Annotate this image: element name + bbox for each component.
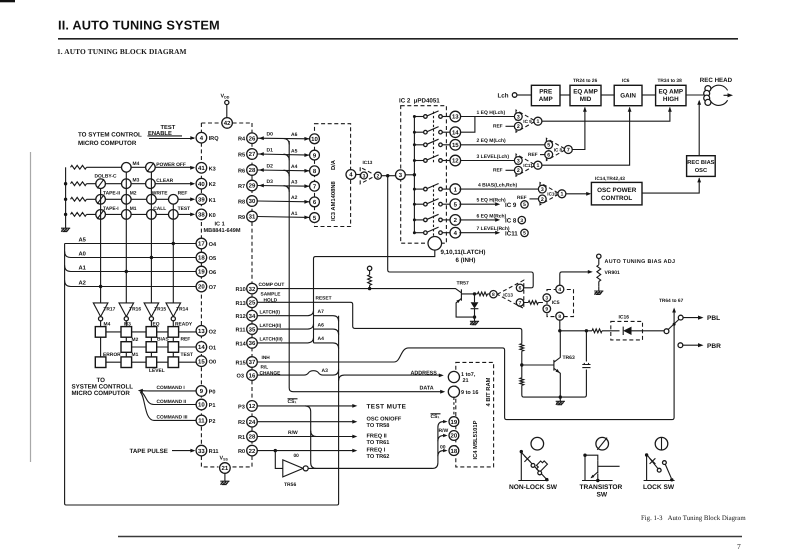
svg-text:AMP: AMP [539, 96, 553, 103]
resistor TR57 collector to comparator [478, 292, 488, 296]
svg-text:1: 1 [536, 119, 539, 125]
svg-text:1: 1 [560, 192, 563, 198]
pin 11 [196, 415, 207, 426]
svg-text:PRE: PRE [539, 88, 552, 95]
wire REF to IC11 [506, 169, 515, 171]
switch contact circle [147, 210, 157, 220]
svg-text:29: 29 [249, 183, 256, 190]
wire buffer out to IC2 pin 3 [382, 175, 396, 177]
junction [585, 329, 588, 332]
pin 3 [543, 294, 551, 302]
svg-text:DOLBY-C: DOLBY-C [95, 174, 117, 180]
svg-text:LOCK SW: LOCK SW [643, 484, 675, 491]
svg-text:40: 40 [198, 181, 205, 188]
pin 9 [196, 386, 207, 397]
wire CS1 row to test mute [257, 404, 357, 408]
wire latch row A7 [257, 311, 338, 322]
svg-text:REF: REF [528, 152, 538, 158]
svg-text:IC 2 µPD4051: IC 2 µPD4051 [399, 97, 440, 104]
svg-text:IRQ: IRQ [209, 136, 220, 142]
resistor reset chain upper [520, 344, 524, 352]
junction [413, 203, 416, 206]
svg-text:TEST: TEST [181, 352, 194, 358]
svg-text:TR64 to 67: TR64 to 67 [659, 298, 684, 304]
wire IC10 out to OSC POWER CONTROL [566, 192, 591, 196]
ground VR901 [594, 287, 603, 295]
svg-text:TEST MUTE: TEST MUTE [367, 404, 407, 411]
matrix cell [95, 327, 106, 338]
svg-text:3: 3 [545, 295, 548, 301]
svg-text:TR17: TR17 [103, 306, 115, 312]
pin 8 [556, 312, 564, 320]
svg-text:REF: REF [493, 168, 503, 174]
wire K3 row [87, 166, 194, 168]
svg-text:TR63: TR63 [563, 355, 575, 361]
junction [670, 478, 673, 481]
analog switch row pin 5 [414, 199, 450, 206]
data bus vertical to RAM [289, 141, 445, 394]
svg-text:M2: M2 [130, 191, 137, 197]
junction [99, 285, 102, 288]
page corner mark [0, 0, 15, 2]
junction [274, 449, 277, 452]
svg-text:17: 17 [198, 241, 205, 248]
svg-text:D3: D3 [267, 179, 274, 185]
svg-text:11: 11 [198, 418, 205, 425]
wire pin4 to buffer [356, 174, 360, 176]
pin 14 [450, 127, 461, 138]
node PBR [678, 343, 704, 348]
wire latch circle to latch bus [314, 250, 435, 343]
pin 3 [514, 157, 522, 165]
svg-text:A4: A4 [318, 336, 325, 342]
svg-text:IC 8: IC 8 [505, 218, 517, 225]
svg-text:FREQ I: FREQ I [367, 448, 386, 454]
wire A5 row [65, 243, 197, 245]
svg-text:K2: K2 [209, 182, 216, 188]
svg-text:18: 18 [451, 448, 458, 455]
pin 32 [247, 283, 258, 294]
svg-text:3: 3 [517, 114, 520, 120]
ground TR57 [470, 317, 479, 325]
pin 2 [514, 122, 522, 130]
svg-text:CONTROL: CONTROL [601, 195, 632, 202]
analog switch row pin 13 [414, 111, 450, 118]
pin 2 [450, 215, 461, 226]
svg-text:21: 21 [222, 465, 229, 472]
svg-text:TO TR61: TO TR61 [367, 440, 390, 446]
block OSC POWER CONTROL [591, 182, 642, 205]
junction [172, 242, 175, 245]
junction [64, 198, 67, 201]
wire K1 row [87, 198, 194, 200]
svg-text:A1: A1 [79, 266, 87, 272]
ground TR63 [556, 397, 565, 405]
svg-text:TO SYTEM CONTROL: TO SYTEM CONTROL [78, 132, 142, 139]
svg-text:15: 15 [452, 142, 459, 149]
svg-text:A6: A6 [318, 322, 325, 328]
svg-text:IC 1: IC 1 [215, 222, 225, 228]
svg-text:R5: R5 [238, 153, 245, 159]
X contact mark [524, 456, 530, 462]
wire column TR14 [172, 204, 174, 303]
wire A1 row [65, 265, 197, 271]
pin 3 [518, 216, 525, 224]
legend LOCK SW [644, 437, 675, 480]
svg-text:R2: R2 [238, 420, 245, 426]
junction [413, 159, 416, 162]
switch (slashed) [96, 210, 106, 220]
svg-text:O2: O2 [209, 329, 216, 335]
analog switch row pin 15 [414, 139, 450, 146]
svg-text:21: 21 [463, 378, 469, 384]
svg-text:R9: R9 [238, 215, 245, 221]
pin 8 [490, 291, 497, 299]
junction [545, 478, 548, 481]
wire comp out row [257, 289, 461, 293]
svg-text:K1: K1 [209, 198, 216, 204]
pin 3 [396, 170, 406, 180]
junction [520, 450, 523, 453]
transistor inverter TR14 [166, 303, 181, 327]
svg-text:O7: O7 [209, 285, 216, 291]
svg-text:COMMAND I: COMMAND I [157, 385, 186, 391]
label TEST ENABLE [148, 124, 183, 137]
svg-text:24: 24 [249, 419, 256, 426]
svg-text:M3: M3 [124, 322, 131, 328]
pin 21 [220, 463, 231, 474]
analog switch row pin 2 [414, 214, 450, 221]
wire IC8 out to EQ AMP MID [572, 107, 587, 150]
svg-text:2: 2 [377, 174, 380, 180]
svg-text:5: 5 [523, 231, 526, 237]
svg-text:6: 6 [519, 286, 522, 292]
svg-text:VR901: VR901 [605, 270, 621, 276]
svg-text:3: 3 [363, 173, 366, 179]
wire column TR16 [125, 172, 127, 303]
svg-text:28: 28 [249, 167, 256, 174]
pin address group [448, 371, 459, 382]
svg-text:LATCH(III): LATCH(III) [260, 337, 283, 343]
junction [583, 454, 586, 457]
wire to rec head [686, 94, 707, 96]
pin 35 [247, 324, 258, 335]
svg-text:IC11: IC11 [523, 163, 533, 168]
wire [601, 94, 614, 96]
svg-text:IC6: IC6 [622, 78, 630, 84]
svg-text:R14: R14 [236, 341, 247, 347]
pin 3 [361, 172, 368, 179]
svg-text:P2: P2 [209, 419, 216, 425]
op-amp IC10 [540, 183, 560, 205]
svg-text:ADDRESS: ADDRESS [411, 370, 438, 376]
pin 13 [450, 111, 461, 122]
ground below pin 21 [224, 473, 226, 477]
svg-text:IC 9: IC 9 [523, 119, 532, 124]
page gutter shadow [30, 152, 32, 462]
svg-text:R0: R0 [238, 449, 245, 455]
junction [559, 395, 562, 398]
svg-text:12: 12 [452, 158, 459, 165]
wire mux 1 to IC10 [459, 188, 539, 190]
svg-text:K0: K0 [209, 213, 216, 219]
svg-text:A5: A5 [79, 238, 87, 244]
wire Lch to pre amp [517, 94, 532, 96]
svg-text:1. AUTO TUNING BLOCK DIAGRAM: 1. AUTO TUNING BLOCK DIAGRAM [57, 47, 187, 56]
wire IC9 out to EQ AMP HIGH [542, 107, 672, 121]
svg-text:VDD: VDD [221, 94, 230, 100]
svg-text:4: 4 [558, 287, 561, 293]
svg-text:VSS: VSS [220, 455, 229, 461]
IC2 uPD4051 dashed outline [401, 106, 447, 244]
junction [64, 213, 67, 216]
node VDD terminal [225, 100, 229, 104]
pin 28 [247, 165, 258, 176]
matrix cell [168, 327, 179, 338]
switch contact circle [122, 210, 132, 220]
switch contact circle [122, 179, 132, 189]
svg-text:6 (INH): 6 (INH) [456, 257, 476, 264]
wire COMMAND III [140, 392, 196, 420]
svg-text:A2: A2 [79, 280, 86, 287]
pin 15 [450, 140, 461, 151]
svg-text:2: 2 [517, 168, 520, 174]
resistor K row [71, 213, 87, 217]
svg-text:20: 20 [451, 433, 458, 440]
svg-text:EQ AMP: EQ AMP [658, 88, 683, 95]
resistor pull-up on comp out [367, 266, 371, 288]
svg-text:7: 7 [737, 542, 741, 551]
analog switch row pin 1 [414, 184, 450, 191]
svg-text:39: 39 [198, 196, 205, 203]
svg-text:R10: R10 [236, 287, 246, 293]
svg-text:10: 10 [311, 136, 318, 143]
svg-text:3: 3 [517, 158, 520, 164]
pin 33 [196, 445, 207, 456]
IC2 input bus [405, 117, 414, 233]
svg-text:FREQ II: FREQ II [367, 433, 388, 439]
svg-text:TRANSISTOR: TRANSISTOR [580, 484, 623, 491]
matrix cell [146, 357, 157, 368]
wire test enable to IRQ pin 4 [149, 136, 195, 140]
bus merge curves [284, 139, 290, 192]
wire D/A feedback down to comparator [388, 176, 534, 288]
svg-text:TAPE-II: TAPE-II [103, 191, 121, 197]
wire to PBL [683, 316, 703, 320]
pin 7 [564, 146, 572, 154]
svg-text:27: 27 [249, 151, 256, 158]
svg-text:REC BIAS: REC BIAS [687, 160, 714, 166]
pin 12 [247, 401, 258, 412]
matrix cell [168, 342, 179, 353]
svg-text:41: 41 [198, 165, 205, 172]
svg-text:R12: R12 [236, 314, 246, 320]
svg-text:IC 8: IC 8 [554, 147, 563, 152]
svg-text:READY: READY [175, 322, 193, 328]
svg-text:HIGH: HIGH [663, 96, 679, 103]
svg-text:O1: O1 [209, 345, 216, 351]
junction [473, 315, 476, 318]
svg-text:4 BIT RAM: 4 BIT RAM [486, 377, 492, 406]
wire D0/A6 row [258, 136, 310, 140]
switch contact circle [122, 195, 132, 205]
svg-text:R/L: R/L [261, 365, 269, 371]
pin 5 [450, 199, 461, 210]
svg-text:A2: A2 [291, 195, 298, 201]
svg-text:COMP OUT: COMP OUT [259, 282, 285, 288]
plug symbol [535, 459, 548, 472]
svg-text:M4: M4 [133, 161, 140, 167]
svg-text:13: 13 [198, 328, 205, 335]
pin 1 [534, 117, 542, 125]
wire mux 13/14 to IC9 [461, 117, 516, 133]
pin 4 [346, 170, 356, 180]
svg-text:P3: P3 [238, 404, 245, 410]
wire tape pulse to pin 33 [172, 449, 195, 453]
svg-text:R/W: R/W [288, 430, 298, 436]
pin 42 [222, 118, 233, 129]
pin 40 [196, 178, 207, 189]
wire IC5 pin8 down to PBL rail [559, 320, 561, 331]
svg-text:R15: R15 [236, 361, 246, 367]
wire column TR15 [150, 172, 152, 303]
junction [558, 329, 561, 332]
svg-text:12: 12 [249, 403, 256, 410]
svg-text:TR24 to 26: TR24 to 26 [573, 78, 598, 84]
svg-text:K3: K3 [209, 166, 216, 172]
control bus into RAM [438, 420, 448, 463]
wire A1 row to pin 5 [257, 216, 309, 220]
svg-text:33: 33 [198, 448, 205, 455]
svg-text:14: 14 [452, 129, 459, 136]
svg-text:16: 16 [249, 372, 256, 379]
svg-text:5 EQ H(Rch): 5 EQ H(Rch) [477, 198, 507, 204]
svg-text:28: 28 [249, 434, 256, 441]
wire PBL rail [560, 330, 664, 332]
pin 5 [521, 229, 528, 237]
wire mux 15 to IC8 [461, 144, 547, 146]
svg-text:IC16: IC16 [619, 315, 630, 321]
svg-text:TO TR62: TO TR62 [367, 454, 390, 460]
wire COMMAND II [141, 392, 196, 405]
matrix cell [95, 357, 106, 368]
svg-text:TAPE-I: TAPE-I [103, 206, 119, 212]
wire osc power control to rec bias osc [642, 177, 701, 193]
svg-text:IC13: IC13 [503, 292, 513, 297]
svg-text:O0: O0 [209, 360, 216, 366]
svg-text:6 EQ M(Rch): 6 EQ M(Rch) [477, 213, 507, 219]
svg-text:14: 14 [198, 344, 205, 351]
pin 19 [449, 417, 459, 427]
wire REF to IC10 [530, 198, 539, 200]
wire TR56 out to RAM [308, 467, 432, 469]
pin 9 [543, 305, 551, 313]
pin 38 [196, 209, 207, 220]
svg-text:00: 00 [440, 444, 446, 450]
pin 6 [545, 151, 553, 159]
switch (slashed) [96, 179, 106, 189]
wire [642, 94, 656, 96]
svg-text:9 to 16: 9 to 16 [461, 390, 478, 396]
svg-text:2: 2 [517, 124, 520, 130]
pin 26 [247, 133, 258, 144]
svg-text:MB8841-649M: MB8841-649M [204, 228, 241, 234]
svg-text:MICRO COMPUTOR: MICRO COMPUTOR [78, 140, 137, 147]
svg-text:LATCH(I): LATCH(I) [260, 310, 281, 316]
capacitor at TR63 [582, 331, 590, 368]
junction [645, 453, 648, 456]
svg-text:5: 5 [523, 202, 526, 208]
matrix cell [121, 342, 132, 353]
matrix row/column wires [101, 332, 197, 362]
svg-text:A3: A3 [291, 180, 298, 186]
svg-text:TAPE PULSE: TAPE PULSE [130, 448, 168, 455]
svg-text:4 BIAS(Lch,Rch): 4 BIAS(Lch,Rch) [478, 183, 518, 189]
svg-text:2: 2 [541, 197, 544, 203]
svg-text:1 to7,: 1 to7, [461, 372, 476, 378]
svg-text:A6: A6 [291, 132, 298, 138]
svg-text:LEVEL: LEVEL [149, 368, 165, 374]
svg-text:POWER OFF: POWER OFF [156, 162, 186, 168]
svg-text:O4: O4 [209, 242, 217, 248]
svg-text:ERROR: ERROR [103, 352, 121, 358]
wire IC5 pin4 to VR901 [560, 270, 593, 285]
op-amp IC13 buffer [360, 167, 376, 184]
svg-text:INH: INH [262, 355, 271, 361]
block EQ AMP MID [570, 85, 601, 105]
svg-text:7: 7 [519, 300, 522, 306]
inverter TR56 [275, 451, 283, 469]
svg-text:MICRO COMPUTOR: MICRO COMPUTOR [72, 390, 131, 397]
pin 2 [538, 195, 546, 203]
svg-text:10: 10 [198, 402, 205, 409]
analog switch row pin 12 [414, 155, 450, 162]
IC16 dashed outline [611, 321, 643, 340]
block PRE AMP [531, 85, 560, 105]
junction [413, 143, 416, 146]
wire COMMAND I [142, 390, 197, 392]
svg-text:OSC ON/OFF: OSC ON/OFF [367, 416, 402, 423]
wire TR63 emitter rail [522, 370, 587, 398]
wire D2/A4 row [258, 168, 310, 173]
svg-text:Lch: Lch [498, 93, 509, 100]
wire INH row [257, 309, 674, 420]
pin 16 [247, 370, 258, 381]
analog switch row pin 14 [414, 127, 450, 134]
svg-text:SW: SW [597, 491, 608, 498]
svg-text:25: 25 [249, 299, 256, 306]
pin 27 [247, 149, 258, 160]
bottom rule [118, 536, 742, 538]
pin 3 [514, 113, 522, 121]
svg-text:II. AUTO TUNING SYSTEM: II. AUTO TUNING SYSTEM [58, 18, 220, 33]
svg-text:35: 35 [249, 326, 256, 333]
pin 7 [516, 299, 523, 307]
svg-text:REF: REF [178, 190, 188, 196]
svg-text:PBL: PBL [707, 315, 720, 322]
wire IC11 out to GAIN [542, 107, 632, 165]
pin data group [448, 386, 459, 397]
svg-text:A1: A1 [291, 211, 298, 217]
junction [64, 182, 67, 185]
svg-text:COMMAND III: COMMAND III [157, 414, 189, 420]
junction [413, 231, 416, 234]
mux control dashed lines [433, 112, 435, 238]
wire CS1 branch down to RAM [305, 406, 438, 469]
svg-text:D1: D1 [267, 147, 274, 153]
switch contact circle [122, 163, 132, 173]
svg-text:19: 19 [198, 269, 205, 276]
